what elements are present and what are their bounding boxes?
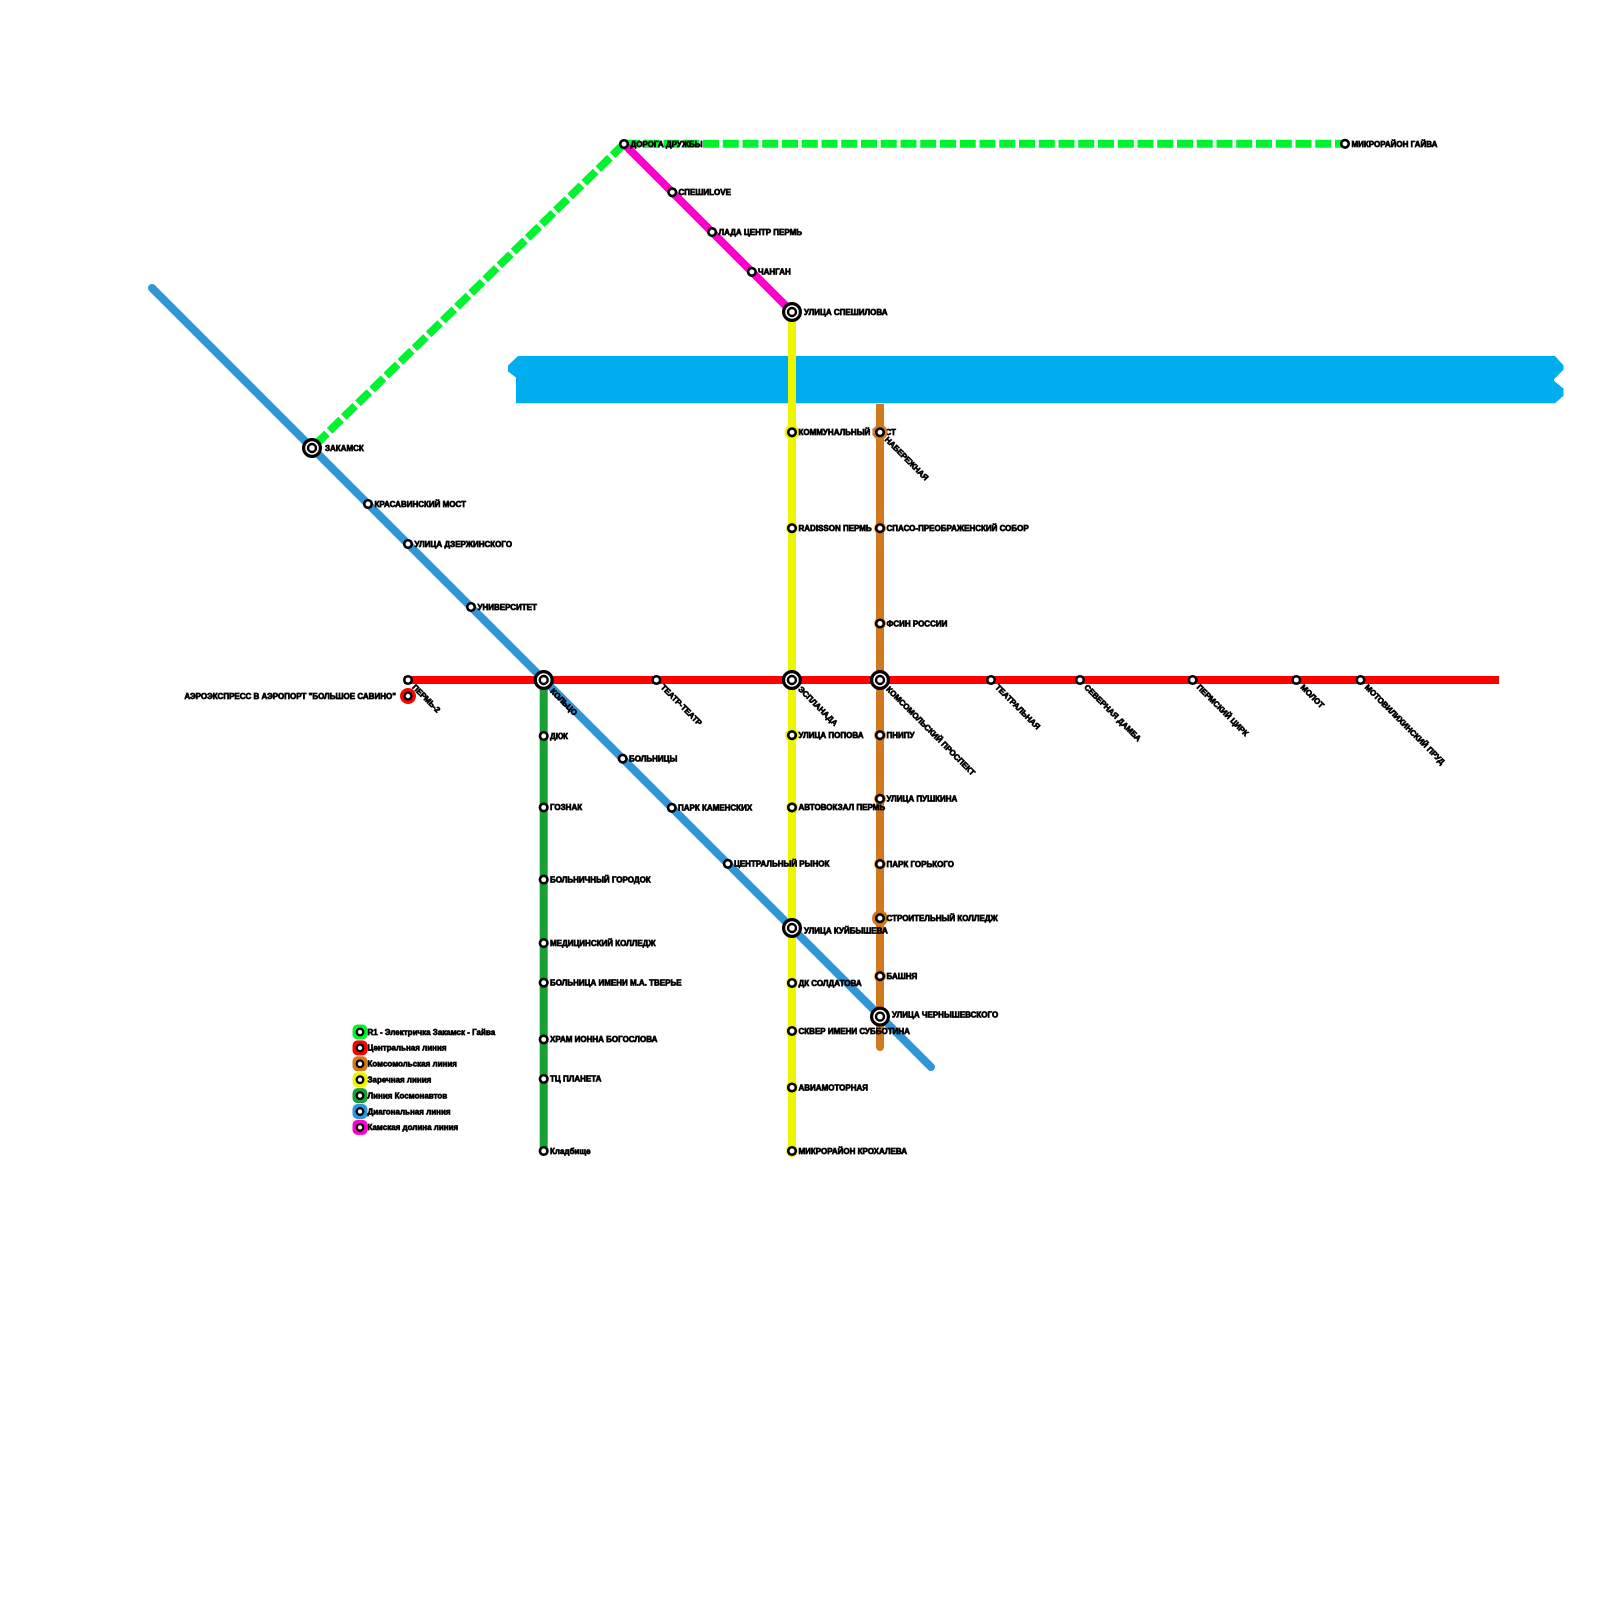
svg-text:УЛИЦА ПУШКИНА: УЛИЦА ПУШКИНА — [887, 795, 958, 804]
legend item orange line — [353, 1056, 458, 1071]
svg-text:БОЛЬНИЦА ИМЕНИ М.А. ТВЕРЬЕ: БОЛЬНИЦА ИМЕНИ М.А. ТВЕРЬЕ — [550, 979, 682, 988]
svg-text:ЛАДА ЦЕНТР ПЕРМЬ: ЛАДА ЦЕНТР ПЕРМЬ — [719, 228, 803, 237]
label KLADBISHCHE — [550, 1147, 591, 1156]
green Kosmonavtov line — [540, 680, 548, 1151]
station BOLNITSA IMENI TVERIE — [540, 979, 548, 987]
station PNIPU — [874, 729, 886, 741]
station BASHNYA — [874, 970, 886, 982]
svg-text:ДОРОГА ДРУЖБЫ: ДОРОГА ДРУЖБЫ — [631, 140, 703, 149]
legend item blue line — [353, 1104, 451, 1119]
label TEATRALNAYA (diagonal) — [993, 683, 1042, 732]
station BOLNITSY — [619, 755, 627, 763]
station SEVERNAYA DAMBA — [1076, 676, 1084, 684]
label MOTOVILIKHINSKY PRUD (diagonal) — [1363, 683, 1447, 767]
blue Diagonal line — [152, 288, 931, 1067]
station MOLOT — [1293, 676, 1301, 684]
label MOLOT (diagonal) — [1299, 683, 1326, 710]
svg-text:ЗАКАМСК: ЗАКАМСК — [325, 444, 364, 453]
interchange station KOMSOMOLSKY PROSPEKT — [872, 672, 889, 689]
svg-text:МЕДИЦИНСКИЙ КОЛЛЕДЖ: МЕДИЦИНСКИЙ КОЛЛЕДЖ — [550, 939, 656, 948]
station ULITSA PUSHKINA — [874, 793, 886, 805]
label KOMMUNALNY MOST — [799, 428, 896, 437]
legend item green line — [353, 1088, 448, 1103]
station UNIVERSITET — [467, 603, 475, 611]
R1 dashed line horizontal segment Doroga Druzhby-Gaiva — [624, 140, 1345, 148]
red Central line — [404, 676, 1499, 684]
river Kama band — [508, 356, 1564, 403]
svg-text:R1 - Электричка Закамск - Гайв: R1 - Электричка Закамск - Гайва — [368, 1028, 496, 1037]
station KHRAM IOANNA BOGOSLOVA — [540, 1036, 548, 1044]
svg-text:Диагональная линия: Диагональная линия — [368, 1107, 451, 1116]
label PERM-2 (diagonal) — [410, 683, 442, 715]
legend item red line — [353, 1040, 447, 1055]
label TC PLANETA — [550, 1075, 602, 1084]
svg-text:СКВЕР ИМЕНИ СУББОТИНА: СКВЕР ИМЕНИ СУББОТИНА — [799, 1027, 911, 1036]
legend item r1 line — [353, 1025, 496, 1040]
label ZAKAMSK — [325, 444, 364, 453]
svg-text:БОЛЬНИЧНЫЙ ГОРОДОК: БОЛЬНИЧНЫЙ ГОРОДОК — [550, 875, 651, 884]
svg-text:Заречная линия: Заречная линия — [368, 1076, 432, 1085]
svg-text:ПАРК КАМЕНСКИХ: ПАРК КАМЕНСКИХ — [678, 804, 753, 813]
svg-text:БОЛЬНИЦЫ: БОЛЬНИЦЫ — [629, 755, 678, 764]
interchange station ESPLANADA — [784, 672, 801, 689]
svg-text:АЭРОЭКСПРЕСС В АЭРОПОРТ "БОЛЬШ: АЭРОЭКСПРЕСС В АЭРОПОРТ "БОЛЬШОЕ САВИНО" — [184, 692, 396, 701]
svg-text:ДК СОЛДАТОВА: ДК СОЛДАТОВА — [799, 979, 862, 988]
label BOLNITSY — [629, 755, 678, 764]
label SPESHILOVE — [679, 188, 732, 197]
station SKVER IMENI SUBBOTINA — [786, 1025, 798, 1037]
station PARK KAMENSKIKH — [668, 804, 676, 812]
svg-text:МИКРОРАЙОН ГАЙВА: МИКРОРАЙОН ГАЙВА — [1352, 140, 1438, 149]
label DK SOLDATOVA — [799, 979, 862, 988]
label BOLNICHNY GORODOK — [550, 875, 651, 884]
station AVTOVOKZAL PERM — [786, 802, 798, 814]
interchange station KOLTSO — [535, 672, 552, 689]
svg-text:ПАРК ГОРЬКОГО: ПАРК ГОРЬКОГО — [887, 860, 954, 869]
svg-text:УЛИЦА КУЙБЫШЕВА: УЛИЦА КУЙБЫШЕВА — [804, 927, 888, 936]
svg-text:Центральная линия: Центральная линия — [368, 1044, 447, 1053]
label KOMSOMOLSKY PROSPEKT (diagonal) — [884, 685, 977, 778]
interchange station ULITSA KUIBYSHEVA — [784, 920, 801, 937]
station PARK GORKOGO — [874, 858, 886, 870]
svg-text:УЛИЦА ЧЕРНЫШЕВСКОГО: УЛИЦА ЧЕРНЫШЕВСКОГО — [892, 1011, 998, 1020]
station TC PLANETA — [540, 1075, 548, 1083]
label ULITSA SPESHILOVA — [804, 308, 888, 317]
legend item yellow line — [353, 1072, 432, 1087]
label PERMSKY TSIRK (diagonal) — [1195, 683, 1250, 738]
svg-text:АВИАМОТОРНАЯ: АВИАМОТОРНАЯ — [799, 1083, 869, 1092]
svg-text:Линия Космонавтов: Линия Космонавтов — [368, 1091, 448, 1100]
orange Komsomolskaya line — [876, 404, 884, 1051]
station TEATR-TEATR — [653, 676, 661, 684]
label ULITSA DZERZHINSKOGO — [415, 540, 513, 549]
label LADA TSENTR PERM — [719, 228, 803, 237]
svg-text:ПНИПУ: ПНИПУ — [887, 731, 916, 740]
label ULITSA KUIBYSHEVA — [804, 927, 888, 936]
station DKZH — [540, 732, 548, 740]
svg-text:КРАСАВИНСКИЙ МОСТ: КРАСАВИНСКИЙ МОСТ — [375, 500, 467, 509]
label MIKRORAION KROKHALEVA — [799, 1147, 908, 1156]
svg-text:RADISSON ПЕРМЬ: RADISSON ПЕРМЬ — [799, 524, 872, 533]
label MIKRORAION GAIVA — [1352, 140, 1438, 149]
label RADISSON PERM — [799, 524, 872, 533]
label KHRAM IOANNA BOGOSLOVA — [550, 1035, 658, 1044]
label BOLNITSA IMENI TVERIE — [550, 979, 682, 988]
label UNIVERSITET — [478, 603, 538, 612]
station PERM-2 — [404, 676, 412, 684]
legend item magenta line — [353, 1120, 459, 1135]
station CHANGAN — [748, 268, 756, 276]
station PERMSKY TSIRK — [1189, 676, 1197, 684]
svg-text:ФСИН РОССИИ: ФСИН РОССИИ — [887, 619, 948, 628]
svg-text:ТЦ ПЛАНЕТА: ТЦ ПЛАНЕТА — [550, 1075, 602, 1084]
svg-text:ЦЕНТРАЛЬНЫЙ РЫНОК: ЦЕНТРАЛЬНЫЙ РЫНОК — [734, 860, 829, 869]
label PARK GORKOGO — [887, 860, 954, 869]
station NABEREZHNAYA — [873, 425, 888, 440]
station STROITELNY COLLEDZH — [872, 910, 888, 926]
label PARK KAMENSKIKH — [678, 804, 753, 813]
station MOTOVILIKHINSKY PRUD — [1357, 676, 1365, 684]
station GOZNAK — [540, 804, 548, 812]
station RADISSON PERM — [786, 522, 798, 534]
station TEATRALNAYA — [987, 676, 995, 684]
station DK SOLDATOVA — [786, 977, 798, 989]
station KOMMUNALNY MOST — [785, 425, 800, 440]
svg-text:УНИВЕРСИТЕТ: УНИВЕРСИТЕТ — [478, 603, 538, 612]
station MEDITSINSKY COLLEDZH — [540, 939, 548, 947]
station BOLNICHNY GORODOK — [540, 876, 548, 884]
svg-text:УЛИЦА ПОПОВА: УЛИЦА ПОПОВА — [799, 731, 864, 740]
station AVIAMOTORNAYA — [786, 1082, 798, 1094]
R1 dashed line diagonal segment Zakamsk-Doroga Druzhby — [312, 144, 624, 448]
label SKVER IMENI SUBBOTINA — [799, 1027, 911, 1036]
label BASHNYA — [887, 972, 918, 981]
label PNIPU — [887, 731, 916, 740]
label CHANGAN — [758, 268, 791, 277]
svg-text:ГОЗНАК: ГОЗНАК — [550, 803, 582, 812]
label TEATR-TEATR (diagonal) — [659, 683, 704, 728]
yellow Zarechnaya line — [788, 312, 796, 1151]
station FSIN ROSSII — [874, 618, 886, 630]
label SEVERNAYA DAMBA (diagonal) — [1082, 683, 1143, 744]
svg-text:ЧАНГАН: ЧАНГАН — [758, 268, 791, 277]
label ULITSA PUSHKINA — [887, 795, 958, 804]
label ULITSA POPOVA — [799, 731, 864, 740]
label MEDITSINSKY COLLEDZH — [550, 939, 656, 948]
label DOROGA DRUZHBY — [631, 140, 703, 149]
label KRASAVINSKY MOST — [375, 500, 467, 509]
station MIKRORAION GAIVA — [1341, 140, 1349, 148]
station TSENTRALNY RYNOK — [724, 860, 732, 868]
station DOROGA DRUZHBY — [620, 140, 628, 148]
interchange station ULITSA SPESHILOVA — [784, 304, 801, 321]
station MIKRORAION KROKHALEVA — [786, 1145, 798, 1157]
label DKZH — [550, 732, 569, 741]
station KRASAVINSKY MOST — [364, 500, 372, 508]
svg-text:АВТОВОКЗАЛ ПЕРМЬ: АВТОВОКЗАЛ ПЕРМЬ — [799, 803, 886, 812]
aeroexpress airport station — [400, 688, 416, 704]
label KOLTSO (diagonal) — [548, 687, 579, 718]
station LADA TSENTR PERM — [708, 228, 716, 236]
label SPASO-PREOBRAZHENSKY SOBOR — [887, 524, 1030, 533]
svg-text:СПЕШИLOVE: СПЕШИLOVE — [679, 188, 732, 197]
interchange station ULITSA CHERNYSHEVSKOGO — [872, 1008, 889, 1025]
svg-text:УЛИЦА СПЕШИЛОВА: УЛИЦА СПЕШИЛОВА — [804, 308, 888, 317]
label ESPLANADA (diagonal) — [796, 685, 839, 728]
label FSIN ROSSII — [887, 619, 948, 628]
interchange station ZAKAMSK — [304, 440, 321, 457]
label TSENTRALNY RYNOK — [734, 860, 829, 869]
magenta Kamskaya dolina line — [624, 144, 792, 312]
svg-text:ДКЖ: ДКЖ — [550, 732, 569, 741]
svg-text:Камская долина линия: Камская долина линия — [368, 1123, 459, 1132]
svg-text:СПАСО-ПРЕОБРАЖЕНСКИЙ СОБОР: СПАСО-ПРЕОБРАЖЕНСКИЙ СОБОР — [887, 524, 1030, 533]
station SPESHILOVE — [669, 189, 677, 197]
label AVTOVOKZAL PERM — [799, 803, 886, 812]
svg-text:УЛИЦА ДЗЕРЖИНСКОГО: УЛИЦА ДЗЕРЖИНСКОГО — [415, 540, 513, 549]
svg-text:БАШНЯ: БАШНЯ — [887, 972, 918, 981]
label NABEREZHNAYA (diagonal) — [883, 435, 930, 482]
label GOZNAK — [550, 803, 582, 812]
station KLADBISHCHE — [540, 1147, 548, 1155]
svg-text:Кладбище: Кладбище — [550, 1147, 591, 1156]
station SPASO-PREOBRAZHENSKY SOBOR — [874, 522, 886, 534]
label AEROEXPRESS — [184, 692, 396, 701]
label ULITSA CHERNYSHEVSKOGO — [892, 1011, 998, 1020]
station ULITSA DZERZHINSKOGO — [404, 540, 412, 548]
svg-text:МИКРОРАЙОН КРОХАЛЕВА: МИКРОРАЙОН КРОХАЛЕВА — [799, 1147, 908, 1156]
label STROITELNY COLLEDZH — [887, 914, 999, 923]
svg-text:Комсомольская линия: Комсомольская линия — [368, 1060, 458, 1069]
svg-text:СТРОИТЕЛЬНЫЙ КОЛЛЕДЖ: СТРОИТЕЛЬНЫЙ КОЛЛЕДЖ — [887, 914, 999, 923]
label AVIAMOTORNAYA — [799, 1083, 869, 1092]
svg-text:ХРАМ ИОННА БОГОСЛОВА: ХРАМ ИОННА БОГОСЛОВА — [550, 1035, 658, 1044]
station ULITSA POPOVA — [785, 728, 799, 742]
